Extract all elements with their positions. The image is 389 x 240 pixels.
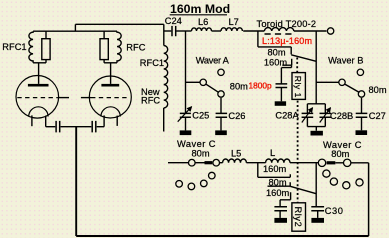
wire: New RFC bottom lead (163, 108, 165, 132)
tube V2 grid lead (81, 97, 91, 99)
twin variable capacitor C28B (324, 104, 326, 114)
svg-text:80m: 80m (269, 177, 287, 187)
wire: input stub (168, 162, 188, 164)
svg-text:C26: C26 (228, 111, 245, 121)
switch Waver B lever (345, 84, 359, 92)
join bar + stem (307, 127, 325, 131)
tube V1 cathode legs (31, 115, 33, 126)
switch Waver C (mid) wiper (195, 162, 204, 164)
wire: top feed line (75, 23, 163, 25)
svg-text:C28A: C28A (275, 111, 299, 121)
ground (180, 130, 192, 135)
svg-text:C30: C30 (325, 206, 344, 216)
svg-text:160m: 160m (266, 188, 290, 198)
wire (294, 30, 327, 32)
wire: left return drop (75, 127, 77, 236)
svg-text:C25: C25 (192, 111, 209, 121)
resistor body RFC1 (42, 39, 50, 60)
inductor L (266, 159, 290, 163)
tube V1 grid (dashed) (17, 97, 57, 99)
svg-text:C27: C27 (369, 111, 386, 121)
switch Waver A lever (206, 84, 218, 92)
switch Waver A contact 80m (218, 91, 224, 97)
wire (246, 162, 265, 164)
wire (61, 126, 92, 128)
switch Waver C (mid) open contacts (176, 181, 183, 188)
capacitor C26 (220, 98, 222, 114)
switch Waver A pole (200, 79, 206, 85)
capacitor (cathode coupling 1) (56, 121, 60, 132)
twin variable capacitor C28A (307, 103, 325, 105)
svg-text:RFC: RFC (126, 42, 145, 52)
wire: C25 drop (185, 31, 187, 113)
switch Waver A contact 160m (218, 69, 224, 75)
wire: cathode row (46, 126, 56, 128)
tube V2 grid (dashed) (91, 97, 130, 99)
svg-text:Waver B: Waver B (328, 55, 363, 65)
capacitor C24 (164, 30, 172, 32)
wire: drop to New RFC coil top (163, 24, 165, 45)
ground (215, 130, 227, 135)
svg-text:L7: L7 (229, 17, 239, 27)
switch Waver B contact 80m (358, 91, 364, 97)
switch Waver C (mid) contact 80m (213, 159, 220, 166)
capacitor (cathode coupling 2) (92, 121, 96, 132)
node bar RFC2 bottom (104, 62, 117, 64)
wire: main right drop (toroid out) (315, 31, 317, 104)
capacitor C27 (361, 98, 363, 113)
ground (311, 218, 324, 223)
inductor toroid T200-2 (264, 28, 293, 31)
toroid core (dashed) (265, 33, 295, 35)
wire: tap 80m (row2) (268, 182, 291, 186)
svg-text:Rly2: Rly2 (293, 207, 303, 228)
wire: right riser (368, 163, 370, 236)
tube V1 envelope (16, 76, 59, 119)
wire: tap 160m (row1) (258, 163, 291, 178)
capacitor on 160m tap (279, 200, 281, 207)
svg-text:L6: L6 (198, 17, 208, 27)
wire: tap 160m stub (282, 59, 291, 65)
inductor L7 (221, 28, 242, 31)
switch Waver B contact 160m (357, 69, 363, 75)
wire (97, 126, 104, 128)
tube V1 anode bar (28, 84, 49, 87)
choke New RFC (coil) (164, 46, 168, 108)
choke RFC2 (coil) (117, 31, 121, 63)
svg-text:Rly 1: Rly 1 (293, 76, 303, 98)
title 160m Mod (170, 2, 230, 16)
wire (220, 162, 223, 164)
mech link (dashed) to Rly1 (296, 58, 298, 73)
wire: tap 160m (row3) (280, 192, 291, 200)
tube V1 grid lead (58, 97, 69, 99)
svg-text:C24: C24 (165, 16, 182, 26)
wire: tap 80m (258, 31, 291, 54)
svg-text:L:13µ-160m: L:13µ-160m (262, 36, 312, 46)
wire (243, 30, 264, 32)
choke RFC1 (coil) (29, 31, 33, 63)
variable capacitor C25 (180, 113, 191, 117)
capacitor C30 (315, 163, 317, 206)
svg-text:160m: 160m (264, 58, 288, 68)
wire (212, 30, 222, 32)
switch Waver C (right) pole (318, 159, 325, 166)
wire: Waver A feed (186, 81, 201, 83)
wire: plate lead tube V1 (38, 63, 40, 84)
svg-text:L: L (270, 148, 275, 158)
tube V2 cathode legs (103, 115, 105, 126)
svg-text:Waver A: Waver A (196, 55, 230, 65)
resistor body RFC2 (100, 39, 108, 60)
wire (290, 162, 318, 164)
tube V2 anode bar (101, 84, 119, 87)
tube V2 cathode arc (101, 107, 120, 117)
svg-text:80m: 80m (331, 149, 349, 159)
svg-text:C28B: C28B (330, 111, 353, 121)
wire (351, 162, 369, 164)
ground (274, 218, 287, 223)
wire: plate lead tube V2 (110, 63, 112, 84)
wire: bottom return bus (76, 235, 368, 237)
tube V1 cathode arc (29, 107, 48, 117)
svg-text:80m: 80m (369, 85, 387, 95)
svg-text:Waver C: Waver C (177, 139, 216, 149)
switch Waver C (right) open contacts (323, 170, 330, 177)
terminal (output) (327, 28, 333, 34)
switch lever (Rly1) (291, 55, 316, 62)
svg-text:80m: 80m (268, 47, 286, 57)
svg-text:Toroid T200-2: Toroid T200-2 (257, 19, 317, 29)
wire: Waver B feed (316, 81, 339, 83)
svg-text:RFC1: RFC1 (140, 58, 164, 68)
inductor L6 (192, 28, 212, 31)
svg-text:L5: L5 (231, 148, 241, 158)
svg-text:160m: 160m (263, 164, 287, 174)
switch Waver C (right) wiper (327, 161, 336, 164)
switch Waver C (right) contact 80m (344, 159, 351, 166)
relay Rly2 box (292, 203, 306, 231)
switch Waver C (mid) pole (189, 159, 196, 166)
svg-text:80m: 80m (230, 81, 248, 91)
svg-text:1800p: 1800p (249, 81, 272, 91)
switch lever (Rly2) (290, 186, 316, 193)
switch Waver B pole (339, 79, 345, 85)
svg-text:160m Mod: 160m Mod (170, 2, 230, 16)
svg-text:RFC: RFC (141, 95, 160, 105)
relay Rly1 box (292, 73, 305, 100)
mech link (dashed) Rly1 to Rly2 (297, 101, 299, 203)
svg-text:80m: 80m (192, 148, 210, 158)
ground (356, 130, 368, 135)
wire: riser from bus to top feed line (74, 24, 76, 31)
ground (311, 131, 323, 136)
capacitor 1800p (added) (281, 65, 291, 83)
node bar RFC1 bottom (33, 62, 46, 64)
tube V2 envelope (89, 76, 131, 118)
ground (275, 101, 286, 106)
inductor L5 (223, 159, 247, 163)
wire: B+ bus over tubes (33, 30, 117, 32)
svg-text:RFC1: RFC1 (2, 42, 26, 52)
